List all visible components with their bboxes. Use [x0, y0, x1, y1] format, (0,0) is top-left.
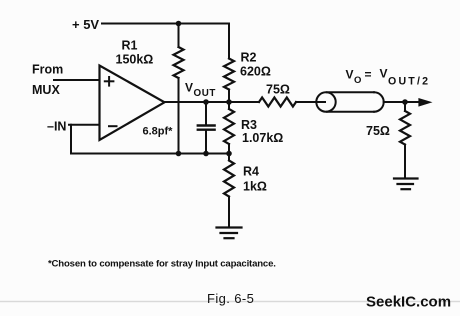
- capacitor C1 6.8pf: [198, 102, 215, 154]
- label 75 ohm series value: [266, 83, 290, 97]
- svg-text:V: V: [346, 68, 354, 82]
- svg-text:MUX: MUX: [32, 83, 60, 97]
- footnote capacitor choice: [48, 259, 276, 270]
- wire noninverting input from MUX: [54, 79, 100, 81]
- label R4 value: [243, 165, 267, 194]
- svg-text:SeekIC.com: SeekIC.com: [366, 294, 451, 311]
- label VO = VOUT/2: [346, 67, 431, 88]
- op-amp U1 inverting (-) pin marker: [109, 125, 117, 127]
- svg-text:R4: R4: [243, 165, 259, 179]
- svg-text:Fig. 6-5: Fig. 6-5: [207, 291, 254, 306]
- svg-text:6.8pf*: 6.8pf*: [143, 126, 174, 138]
- resistor 75 ohm load termination: [400, 102, 410, 178]
- resistor R2: [224, 59, 234, 103]
- node junction R1 tap on +5V rail: [176, 21, 182, 27]
- svg-text:1kΩ: 1kΩ: [243, 180, 267, 194]
- arrow head output: [418, 98, 432, 107]
- svg-text:75Ω: 75Ω: [266, 83, 290, 97]
- svg-text:R3: R3: [241, 118, 257, 132]
- label From MUX input: [32, 63, 63, 98]
- svg-text:OUT/2: OUT/2: [388, 76, 430, 88]
- node junction 75 ohm load tap: [402, 99, 408, 105]
- svg-text:–IN: –IN: [47, 120, 66, 134]
- ground GND1 below R4: [217, 228, 242, 239]
- node junction R3/R4 on feedback line: [226, 151, 232, 157]
- resistor R3: [224, 102, 234, 154]
- svg-text:OUT: OUT: [194, 88, 216, 99]
- wire +5V rail (top horizontal): [102, 23, 229, 25]
- svg-text:R1: R1: [122, 39, 138, 53]
- ground GND2 below load: [394, 179, 418, 190]
- svg-text:1.07kΩ: 1.07kΩ: [242, 131, 283, 145]
- resistor 75 ohm series (coax source termination): [259, 98, 296, 107]
- label R1 value: [116, 39, 154, 67]
- +5V supply label: [72, 17, 99, 32]
- node junction capacitor tap on output: [203, 99, 209, 105]
- svg-text:75Ω: 75Ω: [366, 124, 390, 138]
- svg-text:150kΩ: 150kΩ: [116, 53, 154, 67]
- label -IN: [47, 120, 66, 134]
- svg-text:=: =: [365, 68, 372, 82]
- wire feedback path down and right: [71, 125, 229, 154]
- label VOUT node: [185, 81, 216, 100]
- watermark SeekIC.com: [366, 294, 451, 311]
- label 75 ohm load value: [366, 124, 390, 138]
- node junction R2/R3 on output line: [226, 99, 232, 105]
- node junction R1 bottom on feedback line: [176, 151, 182, 157]
- svg-text:O: O: [354, 75, 361, 86]
- caption Fig. 6-5: [207, 291, 254, 306]
- wire inverting input: [69, 124, 100, 126]
- op-amp U1 noninverting (+) pin marker: [105, 77, 114, 86]
- label R3 value: [241, 118, 283, 145]
- label R2 value: [240, 51, 271, 79]
- wire coax output to arrow: [384, 101, 426, 103]
- resistor R4: [224, 154, 234, 228]
- svg-text:R2: R2: [241, 51, 257, 65]
- wire output line from op-amp: [165, 101, 260, 103]
- resistor R1: [174, 24, 184, 154]
- svg-text:*Chosen to compensate for stra: *Chosen to compensate for stray Input ca…: [48, 259, 276, 270]
- svg-text:+ 5V: + 5V: [72, 17, 99, 32]
- svg-text:V: V: [185, 81, 193, 95]
- op-amp U1 body: [100, 66, 165, 141]
- svg-text:620Ω: 620Ω: [240, 65, 271, 79]
- node junction capacitor bottom on feedback line: [203, 151, 209, 157]
- wire corner from +5V rail down to R2: [228, 24, 230, 59]
- svg-text:From: From: [32, 63, 63, 77]
- coax cable W1: [316, 92, 383, 111]
- wire into coax: [296, 101, 325, 103]
- svg-text:V: V: [380, 67, 388, 81]
- label capacitor value 6.8pf*: [143, 126, 174, 138]
